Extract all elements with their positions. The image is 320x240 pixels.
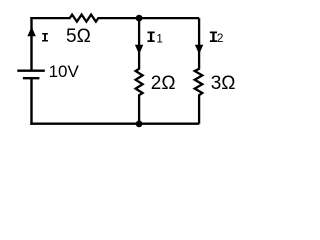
svg-text:5Ω: 5Ω (66, 26, 91, 47)
wire: bottom horizontal (30, 122, 199, 124)
svg-text:I: I (41, 30, 49, 45)
current arrow I2 (pointing down) on right branch (195, 45, 203, 55)
wire: right branch vertical with resistor R3 zigzag (195, 18, 203, 124)
svg-text:I: I (146, 29, 156, 47)
svg-text:3Ω: 3Ω (211, 73, 236, 94)
wire: top horizontal with resistor R1 zigzag (30, 15, 199, 22)
current arrow I1 (pointing down) on middle branch (135, 45, 143, 55)
wire: left vertical bottom segment (battery - down to bottom-left corner) (30, 78, 32, 125)
svg-text:1: 1 (156, 31, 163, 45)
wire: middle branch vertical with resistor R2 zigzag (136, 18, 143, 124)
wire: left vertical top segment (battery + up to top-left corner) (30, 17, 32, 71)
battery V1 long plate (17, 69, 45, 71)
node dot: bottom junction (136, 121, 143, 128)
svg-text:2: 2 (217, 31, 224, 45)
node dot: top junction (136, 15, 143, 22)
svg-text:2Ω: 2Ω (151, 73, 176, 94)
battery V1 short plate (23, 77, 40, 79)
svg-text:10V: 10V (49, 62, 80, 81)
current arrow I (pointing up) on left wire (27, 27, 35, 37)
